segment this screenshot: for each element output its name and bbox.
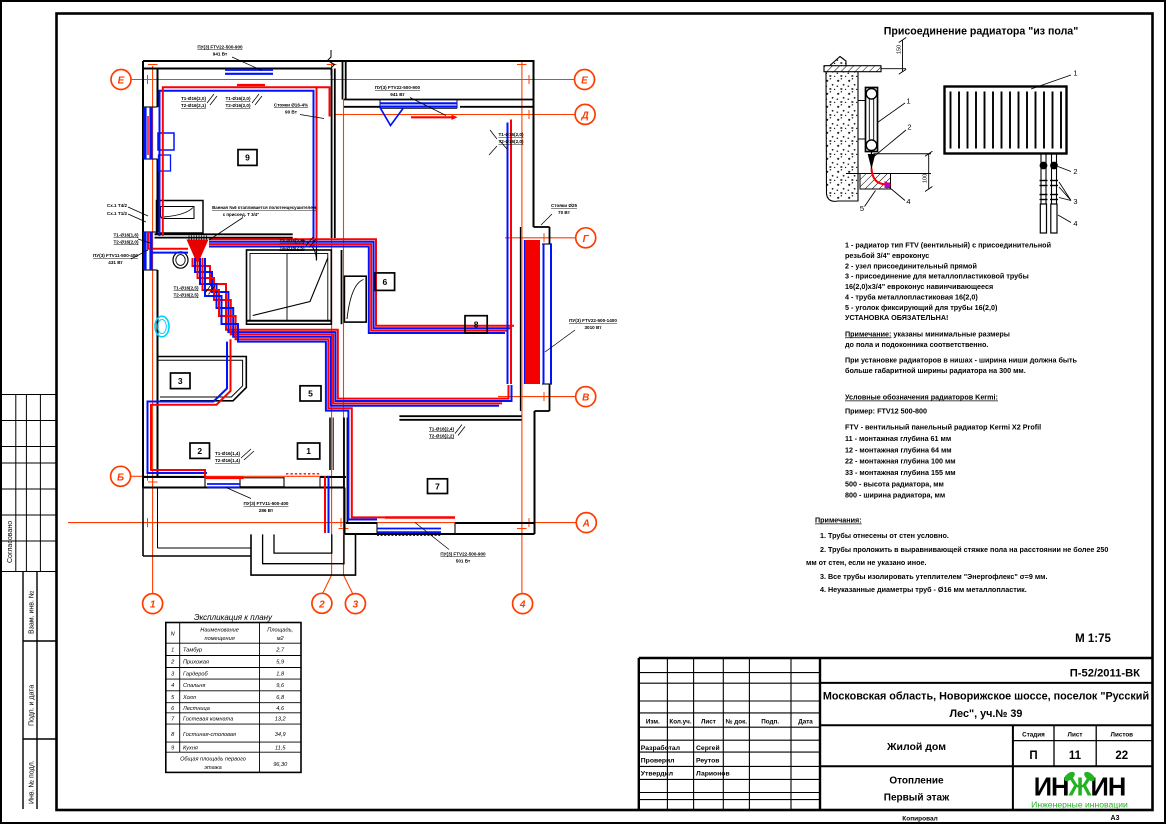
svg-text:2: 2 <box>197 446 202 456</box>
floor slab hatched <box>860 174 891 190</box>
svg-text:Е: Е <box>581 76 588 87</box>
svg-text:Взам. инв. №: Взам. инв. № <box>29 591 36 634</box>
valve stem below radiator <box>871 152 873 173</box>
pipes <box>148 87 515 533</box>
svg-text:ИНЖИН: ИНЖИН <box>1034 774 1126 802</box>
svg-text:Ларионов: Ларионов <box>696 771 730 778</box>
svg-text:Копировал: Копировал <box>902 815 937 822</box>
svg-text:Т2-Ø16(2,1): Т2-Ø16(2,1) <box>181 103 206 108</box>
svg-text:Кухня: Кухня <box>183 745 198 751</box>
svg-text:В: В <box>582 393 589 404</box>
left window 2 radiator <box>143 232 146 270</box>
svg-text:А: А <box>582 519 590 530</box>
svg-text:Т2-Ø16(2,0): Т2-Ø16(2,0) <box>225 103 250 108</box>
svg-text:Т1-Ø16(2,0): Т1-Ø16(2,0) <box>498 132 523 137</box>
svg-text:ПУ(3) FTV22-500-1400: ПУ(3) FTV22-500-1400 <box>569 318 617 323</box>
svg-text:П: П <box>1029 750 1037 762</box>
room box 6 <box>375 273 394 291</box>
dimension lines <box>928 154 930 189</box>
stamp thin verticals <box>667 658 791 810</box>
cyan toilet <box>155 316 169 337</box>
svg-text:11: 11 <box>1069 750 1082 762</box>
svg-text:Стояки Ø25: Стояки Ø25 <box>551 203 577 208</box>
svg-text:431 Вт: 431 Вт <box>108 260 123 265</box>
radiator front view <box>945 87 1067 234</box>
svg-text:Гостиная-столовая: Гостиная-столовая <box>183 732 236 738</box>
svg-text:Изм.: Изм. <box>646 719 660 726</box>
svg-text:Т1-Ø16(2,5): Т1-Ø16(2,5) <box>173 286 198 291</box>
plan labels (tiny) <box>93 45 617 564</box>
svg-text:Т3-Ø16(2,5): Т3-Ø16(2,5) <box>279 239 304 244</box>
axis D horizontal <box>335 114 576 116</box>
pipe T3 upper band to living room (red) <box>209 239 514 325</box>
svg-text:2: 2 <box>318 599 325 610</box>
distribution manifold (red triangle) <box>187 240 209 265</box>
svg-text:1: 1 <box>306 446 311 456</box>
svg-text:1,8: 1,8 <box>276 672 285 678</box>
svg-text:Ванная №6 отапливается полотен: Ванная №6 отапливается полотенцесушителе… <box>212 205 316 210</box>
pipe T4 upper band to living room (blue) <box>209 242 511 329</box>
svg-text:Жилой дом: Жилой дом <box>886 741 946 753</box>
pipe T1 riser stub into wall (red) <box>317 87 330 116</box>
room box 3 <box>171 373 191 389</box>
svg-text:Т1-Ø16(1,6): Т1-Ø16(1,6) <box>113 233 138 238</box>
svg-text:УСТАНОВКА ОБЯЗАТЕЛЬНА!: УСТАНОВКА ОБЯЗАТЕЛЬНА! <box>845 313 948 322</box>
svg-text:3: 3 <box>1073 197 1077 206</box>
svg-text:3010 Вт: 3010 Вт <box>584 325 602 330</box>
svg-text:286 Вт: 286 Вт <box>259 508 274 513</box>
svg-text:1. Трубы отнесены от стен усло: 1. Трубы отнесены от стен условно. <box>820 531 949 540</box>
svg-text:4: 4 <box>1073 219 1077 228</box>
svg-text:Утвердил: Утвердил <box>641 771 673 778</box>
svg-text:Тамбур: Тамбур <box>183 648 202 654</box>
svg-text:9,6: 9,6 <box>276 683 285 689</box>
svg-text:Наименование: Наименование <box>200 628 239 634</box>
supply main from porch (red) <box>324 476 326 533</box>
svg-text:FTV - вентильный панельный рад: FTV - вентильный панельный радиатор Kerm… <box>845 423 1041 432</box>
exterior walls <box>143 61 552 575</box>
detail section labels <box>860 97 912 214</box>
svg-text:3: 3 <box>178 376 183 386</box>
svg-text:Сергей: Сергей <box>696 744 720 752</box>
svg-text:больше габаритной ширины радиа: больше габаритной ширины радиатора на 30… <box>845 366 1026 375</box>
svg-text:Подп.: Подп. <box>761 719 779 726</box>
svg-text:ПУ(3) FTV22-500-900: ПУ(3) FTV22-500-900 <box>440 552 486 557</box>
svg-text:до пола и подоконника соответс: до пола и подоконника соответственно. <box>845 340 988 349</box>
axis 1 vertical <box>152 66 154 594</box>
svg-text:Разработал: Разработал <box>641 744 680 752</box>
svg-text:ПУ(3) FTV22-500-900: ПУ(3) FTV22-500-900 <box>375 85 421 90</box>
svg-text:Экспликация к плану: Экспликация к плану <box>194 613 273 622</box>
room box 1 <box>298 443 320 459</box>
pipes below <box>1041 154 1057 205</box>
top step walls <box>342 62 344 100</box>
svg-text:90 Вт: 90 Вт <box>285 110 298 115</box>
svg-text:Условные обозначения радиаторо: Условные обозначения радиаторов Kermi: <box>845 393 998 402</box>
interior walls <box>155 50 522 523</box>
svg-text:2: 2 <box>1073 167 1077 176</box>
svg-text:800 - ширина радиатора, мм: 800 - ширина радиатора, мм <box>845 491 945 500</box>
svg-text:Лист: Лист <box>1068 732 1083 739</box>
svg-text:Т1-Ø16(2,0): Т1-Ø16(2,0) <box>225 96 250 101</box>
svg-text:1: 1 <box>150 600 156 611</box>
pipe trunk 6 to room-7 radiator (blue) <box>205 258 377 520</box>
pipe trunk 4 (blue) <box>200 258 499 406</box>
bottom right wall <box>346 522 377 524</box>
pipe T1 upper band branch 2 (red) <box>209 244 508 331</box>
svg-text:Т2-Ø16(2,0): Т2-Ø16(2,0) <box>113 240 138 245</box>
label leader lines <box>128 57 575 550</box>
svg-text:1: 1 <box>1073 69 1077 78</box>
svg-text:Т1-Ø16(2,4): Т1-Ø16(2,4) <box>429 427 454 432</box>
svg-text:Д: Д <box>580 110 588 121</box>
svg-text:ПУ(3) FTV11-500-400: ПУ(3) FTV11-500-400 <box>93 253 138 258</box>
room box 7 <box>428 479 448 494</box>
svg-text:22 - монтажная глубина 100 мм: 22 - монтажная глубина 100 мм <box>845 457 956 466</box>
svg-text:Сх.1 Т1/2: Сх.1 Т1/2 <box>107 211 128 216</box>
right wall upper <box>533 61 535 227</box>
stair block <box>247 250 332 324</box>
svg-text:Листов: Листов <box>1111 732 1134 739</box>
svg-text:Реутов: Реутов <box>696 758 720 765</box>
room box 8 <box>465 316 487 333</box>
svg-text:Проверил: Проверил <box>641 758 675 765</box>
svg-text:№ док.: № док. <box>726 719 748 726</box>
svg-text:941 Вт: 941 Вт <box>390 92 405 97</box>
left wall inner segments <box>157 69 159 108</box>
svg-text:Прихожая: Прихожая <box>183 660 209 666</box>
svg-text:150: 150 <box>896 45 902 54</box>
top wall outer line <box>143 60 535 62</box>
stamp horizontals <box>639 673 820 800</box>
svg-text:12 - монтажная глубина 64 мм: 12 - монтажная глубина 64 мм <box>845 445 952 454</box>
windows and radiators <box>145 70 551 536</box>
kitchen counter <box>157 201 204 234</box>
svg-text:Б: Б <box>117 472 124 483</box>
svg-text:с присоед. Т 3/4": с присоед. Т 3/4" <box>223 212 260 217</box>
toilet black <box>173 252 188 268</box>
svg-text:11 - монтажная глубина 61 мм: 11 - монтажная глубина 61 мм <box>845 434 951 443</box>
window sill slab <box>824 66 881 72</box>
svg-text:11,5: 11,5 <box>275 745 286 751</box>
red elbow in floor <box>872 169 886 185</box>
axis A horizontal <box>68 522 577 524</box>
wardrobe room3 <box>158 357 247 401</box>
svg-text:помещения: помещения <box>205 636 235 642</box>
svg-text:8: 8 <box>474 320 479 330</box>
svg-text:Московская область, Новорижско: Московская область, Новорижское шоссе, п… <box>823 691 1149 703</box>
svg-text:Инженерные инновации: Инженерные инновации <box>1031 800 1128 810</box>
bathroom door swing arc <box>295 239 317 261</box>
top wall inner line (left part) <box>143 68 332 70</box>
svg-text:2: 2 <box>907 123 911 132</box>
svg-text:Отопление: Отопление <box>889 776 944 787</box>
svg-text:4,6: 4,6 <box>276 706 285 712</box>
svg-text:Стадия: Стадия <box>1022 732 1045 739</box>
svg-text:Т1-Ø16(1,4): Т1-Ø16(1,4) <box>215 451 240 456</box>
svg-text:4. Неуказанные диаметры труб -: 4. Неуказанные диаметры труб - Ø16 мм ме… <box>820 585 1027 594</box>
axis G horizontal <box>505 237 576 239</box>
svg-text:501 Вт: 501 Вт <box>456 559 471 564</box>
svg-text:Гостевая комната: Гостевая комната <box>183 717 233 723</box>
svg-text:ПУ(3) FTV22-500-900: ПУ(3) FTV22-500-900 <box>197 45 243 50</box>
svg-text:А3: А3 <box>1111 815 1120 822</box>
svg-text:1: 1 <box>906 97 910 106</box>
svg-text:4: 4 <box>906 197 910 206</box>
axis circles and letters <box>111 70 597 614</box>
axis V horizontal <box>498 396 576 398</box>
svg-text:Инв. № подл.: Инв. № подл. <box>29 760 36 804</box>
svg-text:70 Вт: 70 Вт <box>558 210 571 215</box>
bathroom south wall <box>155 233 293 235</box>
svg-text:941 Вт: 941 Вт <box>213 52 228 57</box>
pipe branch to room-2 radiator (red) <box>151 339 231 478</box>
svg-text:Примечание: указаны минимальны: Примечание: указаны минимальные размеры <box>845 329 1010 338</box>
porch steps <box>251 534 356 575</box>
return main to porch (blue) <box>328 476 330 533</box>
svg-text:Гардероб: Гардероб <box>183 672 209 678</box>
svg-text:Г: Г <box>583 234 590 245</box>
pipe T1 room-9 perimeter loop (red) <box>163 87 317 242</box>
room box 5 <box>300 386 321 401</box>
pipe T2 upper band branch 2 (blue) <box>209 247 505 334</box>
room 1 right wall <box>329 418 331 471</box>
axis B horizontal <box>131 475 332 477</box>
svg-text:4 - труба металлопластиковая 1: 4 - труба металлопластиковая 16(2,0) <box>845 292 978 301</box>
svg-text:33 - монтажная глубина 155 мм: 33 - монтажная глубина 155 мм <box>845 468 956 477</box>
axis tick marks at wall crossings <box>148 65 545 529</box>
left margin lower stamp cells <box>23 572 56 810</box>
right column text block 1: detail item list <box>845 241 1078 376</box>
svg-text:Пример: FTV12 500-800: Пример: FTV12 500-800 <box>845 407 927 416</box>
svg-text:Кол.уч.: Кол.уч. <box>669 719 691 726</box>
pipe trunk 3 (red) <box>198 258 503 403</box>
svg-text:6: 6 <box>383 277 388 287</box>
svg-text:500 - высота радиатора, мм: 500 - высота радиатора, мм <box>845 479 944 488</box>
pipe trunk 1 manifold fan to bay radiator (red) <box>193 258 509 399</box>
pipe T1 feed to manifold (red) <box>148 232 188 249</box>
axis 3 vertical <box>344 99 353 594</box>
svg-text:2. Трубы проложить в выравнива: 2. Трубы проложить в выравнивающей стяжк… <box>820 545 1108 554</box>
svg-text:96,30: 96,30 <box>273 762 288 768</box>
svg-text:13,2: 13,2 <box>275 717 287 723</box>
svg-text:2 - узел присоединительный пря: 2 - узел присоединительный прямой <box>845 261 977 270</box>
axis 4 vertical <box>521 60 523 594</box>
svg-text:Общая площадь первого: Общая площадь первого <box>180 757 246 763</box>
pipe riser along east wall (blue) <box>507 123 509 385</box>
svg-text:7: 7 <box>435 481 440 491</box>
svg-text:3. Все трубы изолировать утепл: 3. Все трубы изолировать утеплителем "Эн… <box>820 572 1048 581</box>
svg-text:резьбой 3/4" евроконус: резьбой 3/4" евроконус <box>845 251 929 260</box>
break symbol on top wall <box>328 50 335 75</box>
right bay window + big radiator <box>543 244 545 384</box>
pipe trunk 5 to room-7 radiator (red) <box>203 258 386 517</box>
svg-text:ПУ(3) FTV11-500-400: ПУ(3) FTV11-500-400 <box>244 501 289 506</box>
axis lines (red-orange) <box>68 60 577 594</box>
title block texts <box>646 719 813 726</box>
axis E horizontal <box>131 79 574 81</box>
rotated margin texts <box>7 521 36 804</box>
svg-text:Спальня: Спальня <box>183 683 205 689</box>
wall beside stair <box>341 250 343 324</box>
svg-text:3: 3 <box>353 600 359 611</box>
svg-text:3 - присоединение для металлоп: 3 - присоединение для металлопластиковой… <box>845 272 1029 281</box>
right part lines <box>820 683 1152 810</box>
INGIN logo <box>1029 769 1131 810</box>
pipe T2 room-9 perimeter loop (blue) <box>160 91 314 246</box>
pipe hidden through entrance door (red dashed) <box>286 473 320 475</box>
top-left window radiator <box>225 69 273 71</box>
pipe trunk 2 manifold fan to bay radiator (blue) <box>195 258 512 401</box>
svg-text:Первый этаж: Первый этаж <box>884 793 950 804</box>
svg-text:П-52/2011-ВК: П-52/2011-ВК <box>1070 668 1140 680</box>
svg-text:Е: Е <box>118 76 125 87</box>
svg-text:9: 9 <box>245 153 250 163</box>
bottom-left window radiator <box>205 476 244 479</box>
svg-text:При установке радиаторов в ниш: При установке радиаторов в нишах - ширин… <box>845 355 1078 364</box>
svg-text:1: 1 <box>171 648 174 654</box>
svg-text:Т4-Ø16(2,5): Т4-Ø16(2,5) <box>279 246 304 251</box>
svg-text:Лес", уч.№ 39: Лес", уч.№ 39 <box>950 708 1023 720</box>
explication table <box>166 613 301 772</box>
svg-text:этажа: этажа <box>204 765 221 771</box>
svg-text:22: 22 <box>1115 750 1128 762</box>
svg-text:мм от стен, если не указано ин: мм от стен, если не указано иное. <box>806 558 926 567</box>
left window 1 radiator <box>143 107 146 159</box>
svg-text:М 1:75: М 1:75 <box>1075 633 1111 645</box>
left margin attachment grid <box>2 395 56 572</box>
wall brackets <box>858 100 866 102</box>
svg-text:Лист: Лист <box>701 719 716 726</box>
terrace lower-left <box>142 488 144 557</box>
svg-text:Согласовано: Согласовано <box>7 521 14 563</box>
top wall right recessed part <box>344 99 534 101</box>
svg-text:Лестница: Лестница <box>182 706 210 712</box>
axis 2 vertical <box>323 60 332 594</box>
room 7 top wall <box>399 415 521 417</box>
bottom left wall <box>143 476 205 478</box>
svg-text:100: 100 <box>923 174 929 183</box>
room9 blue equipment <box>158 133 174 150</box>
room box 9 <box>238 150 257 166</box>
svg-text:4: 4 <box>171 683 174 689</box>
svg-text:5,9: 5,9 <box>276 660 284 666</box>
svg-text:Дата: Дата <box>798 719 813 726</box>
svg-text:Площадь,: Площадь, <box>267 628 293 634</box>
svg-text:9: 9 <box>171 745 174 751</box>
pipe branch to room-2 radiator (blue) <box>148 342 228 473</box>
svg-text:5: 5 <box>860 204 864 213</box>
svg-text:Холл: Холл <box>182 695 197 701</box>
top-middle window radiator <box>380 102 457 104</box>
svg-text:Т1-Ø16(2,0): Т1-Ø16(2,0) <box>181 96 206 101</box>
svg-text:Присоединение радиатора "из по: Присоединение радиатора "из пола" <box>884 26 1078 38</box>
svg-text:Т2-Ø16(1,4): Т2-Ø16(1,4) <box>215 458 240 463</box>
pipe T2 feed to manifold (blue) <box>152 236 189 253</box>
svg-text:16(2,0)х3/4" евроконус навинчи: 16(2,0)х3/4" евроконус навинчивающееся <box>845 282 993 291</box>
pipe riser along east wall (red) <box>510 120 512 385</box>
svg-text:Подп. и дата: Подп. и дата <box>29 685 36 726</box>
svg-text:5 - уголок фиксирующий для тру: 5 - уголок фиксирующий для трубы 16(2,0) <box>845 303 998 312</box>
bottom room7 window radiator <box>385 516 455 519</box>
title block <box>639 658 1152 810</box>
svg-text:Стояки Ø16-4%: Стояки Ø16-4% <box>274 103 308 108</box>
left wall outer <box>142 61 144 488</box>
svg-text:2,7: 2,7 <box>275 648 285 654</box>
svg-text:6,8: 6,8 <box>276 695 285 701</box>
svg-text:Сх.1 Т4/2: Сх.1 Т4/2 <box>107 203 128 208</box>
closet right of stair <box>344 276 366 322</box>
svg-text:1 - радиатор тип FTV (вентильн: 1 - радиатор тип FTV (вентильный) с прис… <box>845 241 1051 250</box>
svg-text:34,9: 34,9 <box>275 732 286 738</box>
svg-text:4: 4 <box>519 600 526 611</box>
room box 2 <box>190 443 210 458</box>
concrete wall w/ speckles <box>826 57 858 202</box>
room 7 left wall <box>343 418 345 488</box>
svg-text:Примечания:: Примечания: <box>815 516 862 525</box>
notes text block <box>806 516 1108 595</box>
radiator side view <box>866 88 878 152</box>
svg-text:5: 5 <box>308 389 313 399</box>
svg-text:Т2-Ø16(2,2): Т2-Ø16(2,2) <box>429 434 454 439</box>
legend text block <box>845 393 1041 500</box>
svg-text:м2: м2 <box>277 636 285 642</box>
front view labels <box>1073 69 1077 229</box>
svg-text:Т2-Ø16(2,5): Т2-Ø16(2,5) <box>173 293 198 298</box>
